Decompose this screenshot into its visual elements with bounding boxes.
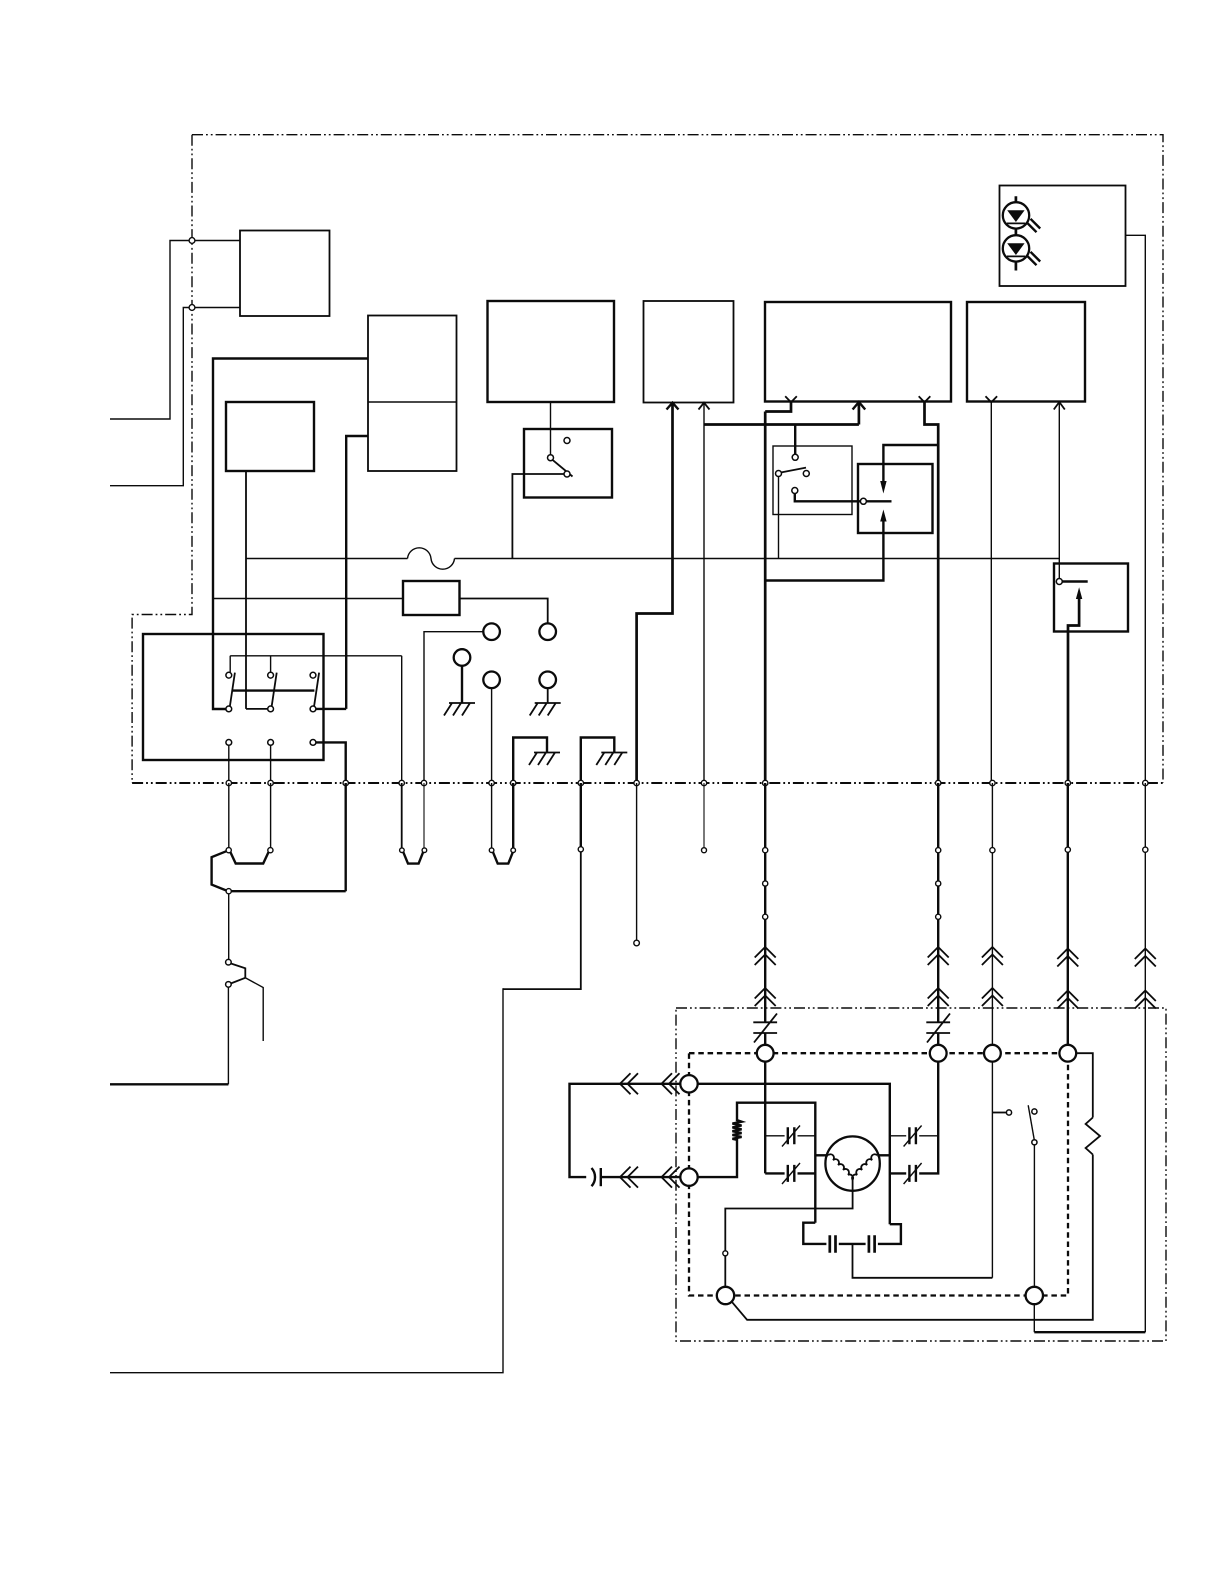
K2 arrow shaft exit to bus — [1068, 599, 1079, 783]
loop chevrons bottom — [620, 1167, 680, 1188]
wire U3 bottom to relay contact 2 — [246, 471, 268, 709]
relay pin 3 lower — [310, 740, 316, 746]
connector pin 3b — [511, 848, 516, 853]
cap row wire left upper — [765, 1135, 815, 1137]
S2 common contact — [792, 454, 798, 460]
chassis ground under C — [444, 703, 475, 716]
K2 contact bar — [1062, 580, 1087, 582]
block U2 divider — [368, 401, 457, 403]
block U5 — [644, 301, 734, 403]
connector pin 5 open — [634, 940, 640, 946]
capacitor C5 plates — [909, 1165, 916, 1182]
resistor block R1 — [403, 581, 460, 615]
cable 3 inline pin — [990, 848, 995, 853]
wire U2 left to relay contact 1 — [213, 359, 368, 710]
wire internal bus to bus pin — [401, 656, 403, 783]
relay contact 2 mid — [268, 706, 274, 712]
motor unit outer dash-dot box — [676, 1008, 1166, 1341]
LED D2 rays — [1027, 252, 1040, 265]
chassis border dash-dot frame — [132, 135, 1163, 783]
capacitor C2 slash — [782, 1126, 800, 1147]
S2 lower contact — [792, 488, 798, 494]
connector link V pair2 — [403, 852, 423, 863]
wire center tap down — [853, 1244, 993, 1278]
switch S4 lever — [1028, 1105, 1034, 1139]
fuse F1 — [408, 548, 455, 569]
LED D1 rays — [1027, 219, 1040, 232]
relay contact 1 upper — [226, 672, 232, 678]
connector link V pair3 — [493, 852, 513, 863]
wire fused line across — [246, 558, 1059, 560]
capacitor C1 straight plate — [600, 1168, 602, 1186]
lamp circle E grounded — [539, 672, 556, 689]
motor connector J4 — [1059, 1045, 1076, 1062]
connector pin 2a — [400, 848, 405, 853]
connector link left hook — [212, 851, 227, 890]
wire lamp D to bus — [491, 688, 493, 783]
capacitor C4 slash — [904, 1126, 922, 1147]
S3 open branch stub — [245, 978, 263, 1041]
wire U6 left pin to bus line — [765, 402, 791, 783]
connector pin 2b — [422, 848, 427, 853]
chassis ground under E — [530, 703, 561, 716]
relay contact 2 upper — [268, 672, 274, 678]
wire left stub bottom — [110, 1083, 228, 1085]
capacitor C3 slash — [782, 1163, 800, 1184]
pin arrow U5 right — [699, 403, 710, 410]
resistor R2 zigzag — [1086, 1118, 1100, 1155]
switch S4 upper contact — [1032, 1109, 1037, 1114]
bottom caps right feed — [878, 1224, 901, 1244]
wire U2 left to relay contact 3 — [316, 436, 368, 709]
cable 1 chevrons — [755, 947, 776, 1006]
wire relay pin3 to bus — [316, 742, 346, 783]
block U7 — [967, 302, 1085, 402]
LED D2 triangle — [1007, 243, 1024, 255]
pin arrow U5 left — [667, 403, 679, 410]
relay box K1 — [858, 464, 933, 533]
wire J3 down — [991, 1062, 993, 1278]
cable line 5 into motor unit — [1144, 783, 1146, 1332]
LED indicator box — [1000, 186, 1126, 287]
motor connector J1 — [757, 1045, 774, 1062]
wire branch to relay K1 coil — [883, 445, 938, 482]
wire U5 right pin down to bus — [703, 403, 705, 783]
LED D1 triangle — [1007, 210, 1024, 222]
relay contact 1 mid — [226, 706, 232, 712]
connector pin 4 — [578, 847, 583, 852]
relay lever 3 — [314, 673, 319, 707]
cable 4 inline pin — [1065, 847, 1070, 852]
wire bus pair2 right — [423, 783, 425, 848]
K2 contact pin — [1056, 579, 1062, 585]
cap row wire right lower — [890, 1062, 938, 1174]
wire U7 right pin to K2 — [1058, 402, 1060, 579]
cable 1 inline pins — [763, 848, 768, 920]
motor connector J8 bottom right — [1026, 1287, 1043, 1304]
inductor L1 — [732, 1120, 741, 1140]
pin fork U7 left — [986, 396, 998, 402]
K2 arrow head — [1076, 587, 1082, 599]
cable line 3 to motor unit — [991, 783, 993, 1045]
relay block internal bus wire — [230, 656, 402, 673]
S2 lever — [781, 468, 806, 473]
relay pin 1 lower — [226, 740, 232, 746]
switch box S1 — [524, 429, 612, 498]
wire bus to chassis pin 4 — [580, 783, 582, 847]
motor connector J2 — [930, 1045, 947, 1062]
motor connector J6 left bottom — [680, 1168, 697, 1185]
wire U5 left pin down and to bus — [637, 403, 673, 783]
shielded loop top wire — [570, 1084, 681, 1177]
S3 branch to contact b — [231, 978, 245, 984]
wire S3 contact b down to left stub — [227, 987, 229, 1084]
node on border at U1 pin2 — [189, 305, 195, 311]
connector pin 6 open — [702, 848, 707, 853]
wire between bottom caps — [839, 1243, 866, 1245]
cable 2 break ticks and slash — [926, 1014, 950, 1043]
wire pin1c to pin1d — [231, 890, 346, 892]
wire inductor to motor left vertical — [737, 1103, 815, 1223]
relay contact 3 upper — [310, 672, 316, 678]
wire resistor to J7 — [732, 1155, 1093, 1320]
contact stub from J3 wire — [992, 1112, 1006, 1114]
cable 4 chevrons — [1057, 949, 1078, 1009]
loop chevrons top — [620, 1073, 680, 1094]
pin fork U6 left — [785, 396, 797, 402]
wire bus pair3 right — [512, 783, 514, 848]
motor right lead — [877, 1154, 890, 1156]
cable line 2 to motor unit — [937, 783, 939, 1045]
S1 throw contact — [564, 471, 570, 477]
wire LED box to right cable — [1126, 235, 1146, 783]
LED D2 bar — [1007, 255, 1025, 257]
wire bus down to pin1d — [345, 783, 347, 891]
loop bottom wire — [601, 1176, 681, 1178]
lamp circle D — [483, 672, 500, 689]
open contact pin — [1006, 1110, 1011, 1115]
wire bus pair2 left — [401, 783, 403, 848]
switch box S2 — [773, 446, 852, 515]
switch S4 lower contact — [1032, 1140, 1037, 1145]
pin arrow U6 center — [853, 402, 866, 410]
relay box K2 — [1054, 564, 1128, 632]
S1 lever — [553, 460, 573, 477]
cable 5 chevrons — [1135, 949, 1156, 1009]
ground bus dash-dot line — [132, 782, 1163, 784]
cable line 1 to motor unit — [764, 783, 766, 1045]
motor left lead — [815, 1154, 828, 1156]
connector pin 1c — [226, 889, 231, 894]
wire bottom left long run — [110, 988, 503, 1372]
wire J6 to inductor — [698, 1138, 737, 1177]
motor M1 body — [825, 1136, 879, 1190]
capacitor C7 plates — [869, 1235, 875, 1253]
bottom caps left feed — [803, 1223, 826, 1244]
motor winding — [828, 1154, 877, 1180]
wire resistor to lamp B — [460, 599, 548, 624]
lamp circle A — [483, 623, 500, 640]
wire bus to open pin 6 — [703, 783, 705, 848]
motor connector J7 bottom left — [717, 1287, 734, 1304]
connector pin 1a — [226, 848, 231, 853]
cable 1 break ticks and slash — [753, 1014, 777, 1043]
pin fork U6 right — [919, 396, 931, 402]
wire bus to connector pair 1a — [228, 783, 230, 848]
wire connector to cable5 bottom — [1033, 1304, 1035, 1332]
relay pin 2 lower — [268, 740, 274, 746]
chassis ground on stub 1 — [529, 753, 560, 766]
LED D2 circle — [1003, 235, 1029, 261]
motor connector J5 left top — [680, 1075, 697, 1092]
bus node pins — [226, 780, 1148, 785]
chassis ground on stub 2 — [596, 753, 627, 766]
capacitor C3 plates — [788, 1165, 795, 1182]
wire J4 to resistor R2 — [1076, 1053, 1093, 1117]
capacitor C6 plates — [830, 1235, 836, 1253]
wire lamp E stem — [547, 688, 549, 703]
wire bus to open pin 5 — [636, 783, 638, 940]
cable 2 chevrons — [928, 947, 949, 1006]
ground stub 1 from bus — [513, 738, 547, 784]
ground stub 2 from bus — [581, 738, 615, 784]
relay lever 2 — [272, 673, 277, 707]
S2 feed wire — [794, 425, 796, 455]
capacitor C5 slash — [904, 1163, 922, 1184]
K1 lower arrow shaft to bus wire — [765, 522, 883, 581]
connector pin 1b — [268, 848, 273, 853]
wire left stub to U1 pin1 — [110, 241, 240, 420]
capacitor C4 plates — [909, 1127, 916, 1144]
wire U7 left pin to bus — [990, 402, 992, 783]
S1 open contact — [564, 438, 570, 444]
LED D1 circle — [1003, 202, 1029, 228]
S3 contact a — [226, 959, 232, 965]
wire J5 to right vertical — [698, 1084, 890, 1224]
cable line 4 to motor unit — [1067, 783, 1069, 1045]
connector pin 3a — [489, 848, 494, 853]
wire relay pin1 to bus — [228, 745, 230, 783]
cable 3 chevrons — [982, 947, 1003, 1006]
motor lead inline pin — [723, 1251, 728, 1256]
LED D1 bar — [1007, 222, 1025, 224]
K1 lower arrow head — [880, 510, 886, 522]
S2 left contact — [776, 471, 782, 477]
K1 contact pin — [860, 498, 866, 504]
wire left stub to U1 pin2 — [110, 308, 240, 486]
wire bus to connector pair 1b — [270, 783, 272, 848]
S2 right contact — [803, 471, 809, 477]
wire long to bottom left — [503, 852, 581, 989]
K1 upper arrow head — [880, 481, 886, 494]
wire U6 right pin down right — [925, 402, 939, 783]
S1 pivot contact — [548, 455, 554, 461]
wire to resistor block left — [213, 598, 403, 600]
S3 contact b — [226, 982, 232, 988]
node on border at U1 pin1 — [189, 238, 195, 244]
wire S2 lower contact to K1 — [795, 494, 861, 502]
capacitor C1 curved plate — [592, 1168, 596, 1186]
motor bottom lead — [725, 1180, 852, 1251]
relay contact 3 mid — [310, 706, 316, 712]
S3 lever — [231, 964, 245, 978]
wire S1 throw to fused line — [512, 474, 564, 559]
LED D1 vertical lead — [1015, 196, 1018, 270]
relay block K3 — [143, 634, 324, 760]
connector link U shape pair1 — [230, 852, 268, 863]
motor connector J3 — [984, 1045, 1001, 1062]
wire bus pair3 left — [491, 783, 493, 848]
pin arrow U7 right — [1054, 402, 1065, 410]
wire lamp A to bus — [424, 632, 483, 783]
cable 2 inline pins — [936, 848, 941, 920]
cable 5 inline pin — [1143, 847, 1148, 852]
wire relay pin2 to bus — [270, 745, 272, 783]
block U3 — [226, 402, 314, 471]
cap row wire right upper — [890, 1135, 938, 1137]
cap row wire left lower — [765, 1172, 815, 1174]
relay lever 1 — [230, 673, 235, 707]
lamp circle B — [539, 623, 556, 640]
motor unit inner dashed shield box — [689, 1053, 1068, 1295]
relay lever link bar — [232, 689, 315, 691]
wire U4 bottom to S1 pivot — [550, 402, 552, 455]
block U4 — [488, 301, 615, 402]
wire cable5 bottom to connector — [1034, 1331, 1145, 1333]
block U1 top-left — [240, 231, 330, 317]
wire pin1c down to switch S3 — [228, 894, 230, 960]
block U2 tall divided — [368, 316, 457, 472]
wire J1 down through caps — [764, 1062, 766, 1174]
wire feed to U6 center pin — [704, 402, 859, 425]
wire S2 left contact down — [778, 477, 780, 559]
K1 contact bar — [866, 500, 891, 502]
wire lamp C stem — [461, 666, 463, 703]
lamp circle C grounded — [454, 649, 471, 666]
wire S4 to J8 — [1033, 1145, 1035, 1287]
block U6 wide — [765, 302, 951, 402]
wire pin to J7 — [724, 1256, 726, 1287]
capacitor C2 plates — [788, 1127, 795, 1144]
